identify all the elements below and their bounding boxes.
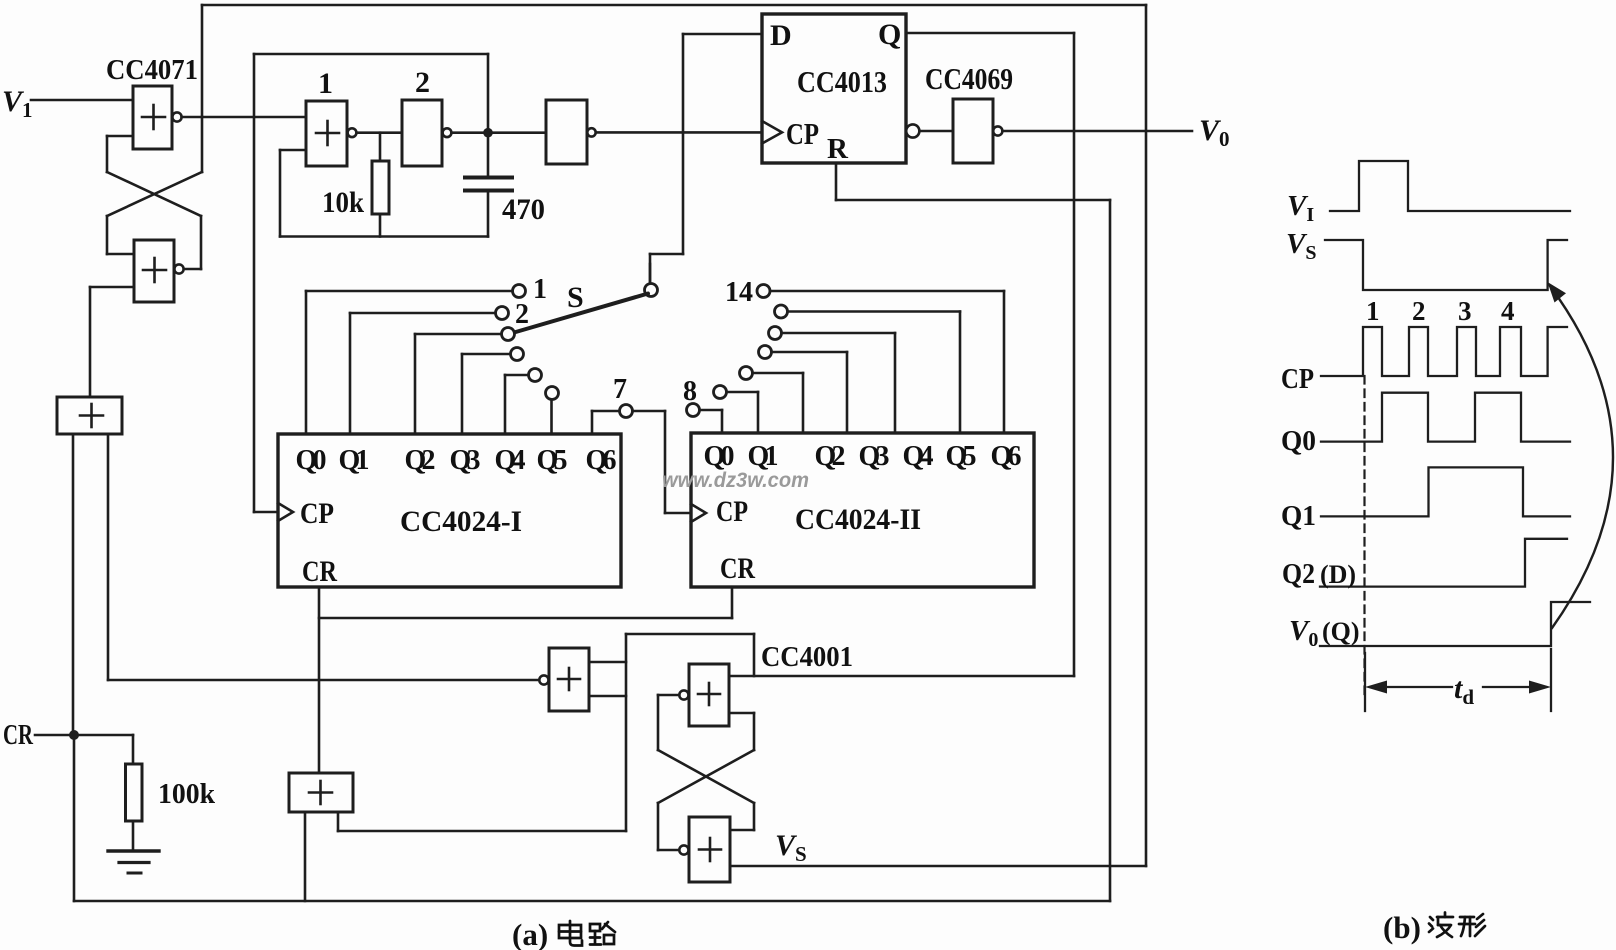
wire tap4 to Q3-I xyxy=(462,354,510,434)
contact tap 2 xyxy=(496,307,509,320)
or-gate U7 bottom middle xyxy=(289,773,353,812)
wire CC4001 net vertical xyxy=(625,634,628,831)
svg-text:CR: CR xyxy=(302,555,337,588)
wire VS feedback: right vertical xyxy=(1145,5,1148,866)
arrow td right head xyxy=(1529,681,1551,694)
svg-text:1: 1 xyxy=(1366,296,1380,326)
wire buffer out to CC4013 CP xyxy=(596,131,762,134)
wire pin14 to Q6-II xyxy=(770,291,1004,433)
svg-text:4: 4 xyxy=(1501,296,1515,326)
contact tap 3 xyxy=(502,328,515,341)
wire cross-coupling diagonal U1B-out to U1A-in xyxy=(107,172,201,269)
resistor R1 10k xyxy=(372,133,389,237)
svg-text:8: 8 xyxy=(683,376,697,407)
node VI input label xyxy=(0,0,1,1)
wire CC4013 D input from switch pole xyxy=(650,34,762,284)
svg-text:CP: CP xyxy=(716,495,748,528)
contact tap d xyxy=(759,346,772,359)
svg-text:CP: CP xyxy=(1281,363,1314,395)
node CC4013 inverted output bubble xyxy=(906,124,919,137)
wire td arrow shafts xyxy=(1372,686,1544,688)
svg-text:Q4: Q4 xyxy=(903,441,934,472)
wire U8B input from latch xyxy=(658,695,679,750)
svg-text:CR: CR xyxy=(3,719,34,751)
waveform Q2 trace xyxy=(1320,539,1567,587)
contact pin 8 xyxy=(687,404,700,417)
waveform VI trace xyxy=(1330,161,1570,211)
wire U5 pin to CR node xyxy=(72,434,75,735)
wire U1A output to oscillator gate 1 xyxy=(182,116,306,119)
svg-text:CC4024-II: CC4024-II xyxy=(795,503,921,536)
contact tap e xyxy=(740,367,753,380)
wire cross-coupling diagonal U1A-out to U1B-in xyxy=(107,117,202,254)
contact tap c xyxy=(769,327,782,340)
nor-gate U8C CC4001 xyxy=(679,817,730,882)
contact tap b xyxy=(775,305,788,318)
wire CC4013 to CC4069 xyxy=(920,130,954,133)
wire dashed timing reference xyxy=(1363,376,1365,700)
svg-text:Q2: Q2 xyxy=(1282,558,1315,590)
wire tapb to Q5-II xyxy=(788,312,960,434)
wire CC4013 Q output xyxy=(729,33,1074,676)
labels Q0-Q6 counter I xyxy=(296,445,617,476)
wire VI input xyxy=(31,99,133,102)
svg-text:2: 2 xyxy=(1412,296,1426,326)
glyph lu of caption a xyxy=(590,922,615,945)
nor-gate U8A CC4001 xyxy=(539,648,589,711)
svg-text:Q4: Q4 xyxy=(495,445,526,476)
svg-text:Q0: Q0 xyxy=(296,445,327,476)
wire latch left down xyxy=(658,803,679,850)
switch S pole contact xyxy=(645,284,658,297)
svg-text:D: D xyxy=(770,19,792,52)
resistor R2 100k xyxy=(126,735,143,851)
wire CC4013 R reset xyxy=(836,163,1110,901)
svg-text:(D): (D) xyxy=(1320,560,1356,589)
svg-text:Q2: Q2 xyxy=(405,445,436,476)
svg-text:R: R xyxy=(827,133,849,165)
wire tapd to Q3-II xyxy=(772,352,847,433)
wire V0 output line xyxy=(1003,130,1193,133)
wire U1B input2 from gate U5 xyxy=(90,287,134,397)
wire latch diagonal 2 xyxy=(658,750,754,803)
svg-text:www.dz3w.com: www.dz3w.com xyxy=(662,469,809,492)
svg-text:Q1: Q1 xyxy=(339,445,370,476)
nor-gate U8B CC4001 xyxy=(679,664,729,726)
wire U1A input2 from cross-coupling xyxy=(107,136,133,172)
wire td left tick xyxy=(1364,653,1366,711)
wire U7 left pin to bottom bus xyxy=(304,812,307,901)
svg-text:Q5: Q5 xyxy=(946,441,977,472)
wire tap1 to Q0-I xyxy=(306,291,512,434)
wire tap6 to Q5-I xyxy=(550,400,553,435)
wire tapf to Q1-II xyxy=(727,392,758,433)
or-gate 1 oscillator xyxy=(306,101,356,166)
contact tap 7 pin7 xyxy=(620,405,633,418)
contact tap 14 pin14 xyxy=(757,285,770,298)
contact tap 4 xyxy=(511,348,524,361)
wire td right tick xyxy=(1550,649,1552,711)
svg-text:Q6: Q6 xyxy=(991,441,1022,472)
inverter U3 CC4069 xyxy=(953,99,1002,163)
waveform VS trace xyxy=(1325,240,1567,290)
node oscillator output junction xyxy=(483,128,493,138)
svg-text:Q0: Q0 xyxy=(704,441,735,472)
svg-text:CC4071: CC4071 xyxy=(106,54,198,86)
svg-text:Q3: Q3 xyxy=(450,445,481,476)
contact tap 6 xyxy=(546,387,559,400)
wire U8B lower pin xyxy=(729,713,754,750)
wire U5 pin to U8A input xyxy=(108,434,539,680)
capacitor C1 470 xyxy=(465,133,512,237)
contact tap 1 xyxy=(513,285,526,298)
wire tap5 to Q4-I xyxy=(505,375,528,434)
svg-text:1: 1 xyxy=(533,274,547,305)
svg-text:(b): (b) xyxy=(1383,910,1421,945)
inverter gate 2 oscillator xyxy=(402,100,451,166)
svg-text:Q1: Q1 xyxy=(1281,500,1316,532)
waveform Q1 trace xyxy=(1321,467,1570,516)
svg-text:14: 14 xyxy=(725,277,753,308)
svg-text:CP: CP xyxy=(300,497,334,530)
svg-text:S: S xyxy=(567,281,584,314)
svg-text:Q5: Q5 xyxy=(537,445,568,476)
svg-text:CC4013: CC4013 xyxy=(797,64,887,99)
wire node up to clock rail xyxy=(487,54,490,133)
svg-text:Q3: Q3 xyxy=(859,441,890,472)
waveform Q0 trace xyxy=(1321,393,1570,442)
svg-text:1: 1 xyxy=(318,67,333,100)
wire U8A output stubs xyxy=(589,662,626,696)
wire tap3 to Q2-I xyxy=(415,334,501,434)
svg-text:10k: 10k xyxy=(322,186,364,219)
wire VS from gate U8 output xyxy=(730,865,1146,868)
svg-text:CC4024-I: CC4024-I xyxy=(400,505,522,538)
svg-text:7: 7 xyxy=(613,374,627,405)
wire CC4001 net top link xyxy=(626,634,754,676)
contact tap 5 xyxy=(529,369,542,382)
svg-text:Q1: Q1 xyxy=(748,441,779,472)
contact tap f xyxy=(714,386,727,399)
switch S lever xyxy=(514,294,648,333)
svg-text:CC4001: CC4001 xyxy=(761,641,853,673)
wire pin8 to Q0-II xyxy=(700,410,722,433)
svg-text:Q: Q xyxy=(878,18,901,51)
wire CR bus counters to gate U7 xyxy=(319,587,732,773)
wire tap7 to Q6-I xyxy=(592,411,619,434)
wire latch diagonal 1 xyxy=(658,750,754,803)
or-gate U1A CC4071 top xyxy=(133,86,182,149)
svg-text:CC4069: CC4069 xyxy=(925,61,1013,96)
wire latch right down xyxy=(730,803,754,830)
wire tape to Q2-II xyxy=(753,373,803,433)
svg-text:CR: CR xyxy=(720,552,755,585)
wire oscillator feedback bottom xyxy=(280,150,488,237)
arrow arc head xyxy=(1548,282,1567,303)
switch S pole wire xyxy=(649,264,652,284)
svg-text:CP: CP xyxy=(786,116,819,151)
svg-text:(a): (a) xyxy=(512,917,548,950)
svg-text:(Q): (Q) xyxy=(1322,617,1360,646)
arc feedback arrow xyxy=(1550,286,1613,628)
wire VS feedback: top bus xyxy=(202,4,1146,7)
node CR input xyxy=(35,730,133,901)
svg-text:Q6: Q6 xyxy=(586,445,617,476)
svg-text:2: 2 xyxy=(415,66,430,99)
arrow td left head xyxy=(1365,681,1387,694)
wire gate1 out to gate2 xyxy=(356,131,402,134)
svg-text:Q0: Q0 xyxy=(1281,425,1316,457)
wire U7 right pin to CC4001 net xyxy=(338,812,626,831)
flip-flop U2 CC4013 xyxy=(762,14,906,163)
or-gate U5 left small xyxy=(57,397,122,434)
labels Q0-Q6 counter II xyxy=(704,441,1022,472)
wire oscillator clock rail top xyxy=(254,53,488,56)
waveform V0 trace xyxy=(1320,602,1590,646)
svg-text:100k: 100k xyxy=(158,779,215,810)
wire tap2 to Q1-I xyxy=(350,313,495,434)
counter U6 CC4024-II box xyxy=(691,433,1034,587)
wire tapc to Q4-II xyxy=(782,333,895,433)
wire oscillator clock rail left vertical to CP-I xyxy=(254,54,278,512)
counter U4 CC4024-I box xyxy=(278,434,621,587)
wire gate2 out to node xyxy=(451,131,546,134)
svg-text:470: 470 xyxy=(502,193,545,226)
glyph bo of caption b xyxy=(1429,913,1453,938)
glyph dian of caption a xyxy=(559,921,582,946)
svg-text:Q2: Q2 xyxy=(815,441,846,472)
or-gate U1B CC4071 bottom xyxy=(134,240,184,302)
wire bottom ground bus xyxy=(74,900,1110,903)
svg-text:2: 2 xyxy=(515,299,529,330)
wire VS feedback: left vertical xyxy=(201,5,204,117)
glyph xing of caption b xyxy=(1459,914,1485,936)
ground xyxy=(108,851,159,873)
waveform CP trace xyxy=(1321,327,1567,376)
inverter buffer gate 3 xyxy=(546,100,596,164)
wire pin7 to CP-II xyxy=(633,411,691,513)
svg-text:3: 3 xyxy=(1458,296,1472,326)
